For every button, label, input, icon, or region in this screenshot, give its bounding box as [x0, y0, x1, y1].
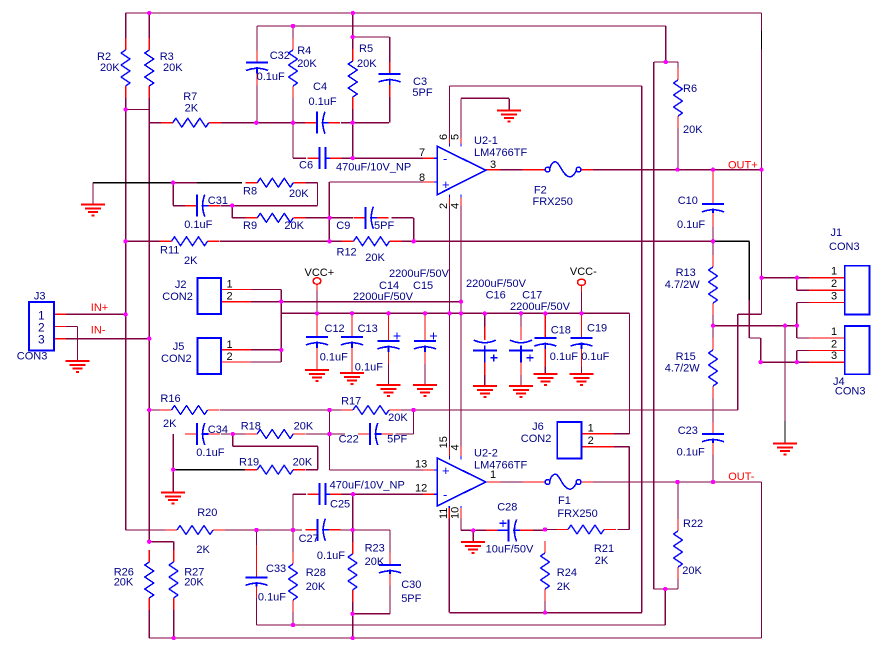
resistor R18	[241, 421, 314, 439]
wire C32 column stubs	[256, 26, 258, 123]
pin 7 label U2-1	[419, 147, 425, 159]
ground below C18	[533, 374, 557, 385]
svg-text:C17: C17	[522, 289, 542, 301]
connector J6 CON2	[521, 421, 594, 459]
capacitor C33	[246, 545, 287, 604]
wire U2-1 pin8 row and column	[329, 182, 437, 241]
svg-text:C32: C32	[270, 50, 290, 62]
capacitor C18	[534, 325, 578, 364]
wire OUT+ feedback top row	[126, 12, 762, 14]
svg-text:20K: 20K	[365, 556, 385, 568]
wire U2-2 pin11 to bottom rail	[449, 506, 641, 613]
connector J5 CON2	[161, 338, 233, 374]
wire C10 column	[712, 170, 714, 242]
resistor R12	[337, 237, 402, 264]
svg-text:2: 2	[438, 203, 450, 209]
resistor R5	[348, 43, 377, 109]
svg-text:20K: 20K	[293, 457, 313, 469]
svg-text:C31: C31	[208, 195, 228, 207]
svg-text:C18: C18	[551, 325, 571, 337]
wire black segment C10 to J4 pin3	[713, 241, 761, 362]
svg-text:LM4766TF: LM4766TF	[474, 147, 527, 159]
wire C14/C15 lead maroon part	[389, 364, 426, 385]
wire U2-2 output to F1 and OUT- row	[486, 482, 762, 638]
svg-text:C28: C28	[497, 502, 517, 514]
resistor R3	[145, 38, 184, 98]
svg-text:CON3: CON3	[17, 350, 48, 362]
capacitor C31	[184, 195, 228, 231]
svg-text:2K: 2K	[196, 544, 210, 556]
svg-text:R6: R6	[683, 83, 697, 95]
pin 12 label U2-2	[415, 483, 427, 495]
wire IN+ column R2 bottom to R20	[125, 98, 127, 530]
svg-text:5PF: 5PF	[412, 87, 432, 99]
wire R8 right jog down	[232, 183, 317, 206]
capacitor C6 470uF/10V_NP	[299, 147, 411, 173]
svg-text:0.1uF: 0.1uF	[258, 592, 286, 604]
wire C9 right jog	[391, 218, 413, 242]
wire R19 loop	[233, 434, 318, 470]
svg-text:R9: R9	[243, 220, 257, 232]
svg-text:10: 10	[450, 507, 462, 519]
svg-text:VCC+: VCC+	[305, 267, 335, 279]
ground symbol U2-1 pin5	[497, 110, 521, 121]
resistor R16	[160, 393, 220, 430]
net label OUT+	[728, 160, 758, 172]
wire R22 column and jog	[654, 482, 678, 625]
svg-text:2: 2	[588, 435, 594, 447]
svg-text:20K: 20K	[388, 412, 408, 424]
wire R7 row	[149, 122, 389, 124]
svg-text:-: -	[443, 487, 447, 502]
svg-text:J1: J1	[831, 227, 843, 239]
op-amp U2-2 LM4766TF	[437, 448, 527, 507]
wire J1 pin3 to mid rail	[797, 303, 845, 326]
pin 1 label U2-2	[490, 469, 496, 481]
ground symbol below J3	[66, 361, 90, 372]
svg-text:C30: C30	[401, 579, 421, 591]
wire bottom rail 625	[257, 624, 666, 626]
svg-text:LM4766TF: LM4766TF	[474, 460, 527, 472]
svg-text:2K: 2K	[185, 103, 199, 115]
svg-text:CON2: CON2	[161, 353, 192, 365]
svg-text:2K: 2K	[184, 255, 198, 267]
svg-text:1: 1	[227, 279, 233, 291]
resistor R27	[169, 550, 204, 610]
capacitor C14 2200uF/50V	[353, 280, 414, 364]
svg-text:20K: 20K	[357, 58, 377, 70]
wire C3 top jog	[353, 37, 390, 123]
wire J3 pin1 IN+ row	[54, 313, 126, 315]
resistor R4	[289, 38, 318, 98]
capacitor C4	[305, 81, 340, 134]
svg-text:C9: C9	[336, 220, 350, 232]
svg-text:5: 5	[450, 134, 462, 140]
resistor R8	[243, 178, 309, 200]
wire U2-2 pin10 to C28	[461, 506, 497, 531]
resistor R21	[556, 525, 616, 567]
wire J4 pin2	[797, 351, 845, 363]
svg-text:20K: 20K	[114, 577, 134, 589]
svg-text:0.1uF: 0.1uF	[257, 71, 285, 83]
svg-text:0.1uF: 0.1uF	[550, 351, 578, 363]
capacitor C25 470uF/10V_NP	[307, 480, 404, 511]
capacitor C15 2200uF/50V	[389, 268, 450, 364]
capacitor C34	[185, 423, 228, 459]
connector J3 CON3	[17, 291, 54, 363]
resistor R13 4.7/2W	[665, 255, 718, 315]
wire J1 pin2	[797, 278, 845, 291]
svg-text:20K: 20K	[184, 577, 204, 589]
connector J2 CON2	[162, 278, 232, 314]
svg-text:IN+: IN+	[91, 302, 108, 314]
svg-text:R4: R4	[297, 45, 311, 57]
resistor R26	[114, 550, 154, 610]
wire C25/pin12 row	[293, 494, 423, 530]
svg-text:1: 1	[831, 266, 837, 278]
svg-text:0.1uF: 0.1uF	[581, 351, 609, 363]
svg-text:R8: R8	[243, 186, 257, 198]
svg-text:20K: 20K	[289, 188, 309, 200]
op-amp U2-1 LM4766TF	[437, 135, 527, 195]
svg-text:5PF: 5PF	[374, 220, 394, 232]
svg-text:2K: 2K	[557, 581, 571, 593]
svg-text:20K: 20K	[100, 62, 120, 74]
pin 3 label U2-1	[490, 159, 496, 171]
wire ground drop right of J4	[784, 326, 786, 444]
svg-text:F1: F1	[558, 495, 571, 507]
wire R27 jog	[149, 542, 173, 638]
svg-text:3: 3	[831, 350, 837, 362]
capacitor C32	[246, 50, 290, 86]
wire R13 column stubs	[712, 241, 714, 325]
capacitor C28 10uF/50V	[486, 502, 534, 556]
svg-text:4: 4	[450, 444, 462, 450]
wire U2-1 pin7 red stub	[423, 157, 437, 159]
svg-text:C15: C15	[413, 280, 433, 292]
svg-text:20K: 20K	[297, 58, 317, 70]
wire input network row 410	[149, 409, 738, 411]
fuse F2 FRX250	[533, 162, 581, 208]
wire J3 pin3 IN- row	[54, 338, 149, 340]
wire C30 column	[353, 530, 390, 614]
resistor R23	[348, 542, 385, 602]
wire R19 black segment	[173, 469, 245, 471]
svg-text:1: 1	[490, 469, 496, 481]
ground below C19	[570, 374, 594, 385]
svg-text:3: 3	[38, 333, 45, 347]
pin 6 label U2-1	[438, 134, 450, 140]
wire second top row (C32/R4 to R6)	[257, 25, 666, 27]
svg-text:+: +	[442, 177, 450, 192]
wire R11/R12 long row	[126, 240, 713, 242]
wire U2-1 pin3 output stub	[486, 169, 593, 171]
wire pin5 to ground	[461, 98, 509, 138]
svg-text:R15: R15	[676, 351, 696, 363]
svg-text:J3: J3	[34, 291, 46, 303]
wire U2-1 output to F2 and OUT+ row	[500, 169, 762, 171]
wire J4 pin1	[797, 326, 845, 338]
svg-text:C25: C25	[330, 499, 350, 511]
wire R20 row to C27	[126, 529, 390, 531]
wire pin6 loop row86 and column to U2-2 pin11 row	[450, 86, 642, 613]
wire J5 pin2	[221, 361, 281, 363]
resistor R22	[674, 518, 704, 579]
svg-text:R23: R23	[365, 543, 385, 555]
pin 4 label U2-2	[450, 444, 462, 450]
svg-text:4.7/2W: 4.7/2W	[665, 363, 700, 375]
svg-text:J2: J2	[175, 279, 187, 291]
wire C12/C13/C18/C19 leads to grounds	[317, 360, 582, 374]
resistor R15 4.7/2W	[665, 338, 718, 398]
svg-text:OUT-: OUT-	[728, 471, 755, 483]
svg-text:20K: 20K	[284, 220, 304, 232]
svg-text:11: 11	[438, 508, 450, 519]
wire U2 pin2/pin15 column	[449, 143, 451, 459]
resistor R2	[97, 38, 130, 98]
svg-text:4: 4	[450, 203, 462, 209]
resistor R9	[243, 213, 305, 232]
svg-text:2200uF/50V: 2200uF/50V	[510, 301, 571, 313]
svg-text:C12: C12	[325, 323, 345, 335]
svg-text:R22: R22	[683, 518, 703, 530]
wire J2 pin1	[221, 290, 281, 363]
svg-text:R17: R17	[341, 396, 361, 408]
svg-text:R5: R5	[359, 43, 373, 55]
ground symbol right of J4	[773, 444, 797, 455]
wire mid rail R13/R15 junction to J1 pin3	[713, 325, 797, 327]
wire IN- column R3 bottom down to R26 node	[148, 98, 150, 542]
connector J1 CON3	[829, 227, 870, 315]
svg-text:2200uF/50V: 2200uF/50V	[353, 291, 414, 303]
svg-text:C10: C10	[678, 195, 698, 207]
pin 8 label U2-1	[419, 172, 425, 184]
svg-text:IN-: IN-	[91, 325, 106, 337]
wire J2 pin2 / VCC link row	[221, 301, 461, 303]
resistor R20	[165, 507, 225, 556]
net label IN+	[91, 302, 108, 314]
svg-text:0.1uF: 0.1uF	[677, 219, 705, 231]
wire R24 column stubs	[544, 530, 546, 613]
svg-text:0.1uF: 0.1uF	[677, 447, 705, 459]
resistor R6	[674, 68, 704, 136]
svg-text:U2-1: U2-1	[474, 135, 498, 147]
capacitor C23	[677, 422, 724, 459]
svg-text:20K: 20K	[163, 62, 183, 74]
svg-text:2: 2	[831, 338, 837, 350]
wire R9 row	[232, 206, 353, 218]
wire C33 column	[256, 530, 258, 625]
wire U2-1 pin6/pin5 red stubs	[450, 138, 462, 143]
wire C31 row	[173, 183, 232, 206]
wire C16/C17 leads to grounds	[485, 375, 521, 386]
wire long feedback column to R22	[653, 62, 655, 589]
capacitor C27	[299, 519, 346, 562]
svg-text:1: 1	[227, 339, 233, 351]
svg-text:3: 3	[490, 159, 496, 171]
capacitor C12	[306, 323, 348, 364]
svg-text:U2-2: U2-2	[474, 448, 498, 460]
svg-text:-: -	[443, 151, 447, 166]
wire C34/R18/C22 row	[221, 410, 414, 434]
svg-text:J6: J6	[532, 421, 544, 433]
svg-text:J5: J5	[173, 341, 185, 353]
wire J6 pin2 to R21	[582, 447, 630, 530]
svg-text:20K: 20K	[306, 581, 326, 593]
svg-text:+: +	[442, 463, 450, 478]
wire R15/C23 column stubs	[712, 326, 714, 482]
wire C28 right to R24/R21 node	[518, 529, 545, 531]
capacitor C19	[571, 323, 610, 364]
svg-text:2: 2	[831, 278, 837, 290]
svg-text:CON2: CON2	[521, 433, 552, 445]
resistor R17	[341, 396, 408, 425]
svg-text:20K: 20K	[294, 421, 314, 433]
svg-text:2K: 2K	[163, 418, 177, 430]
wire C28 ground drop	[472, 530, 474, 541]
wire U2-2 pin12 red stub	[423, 493, 437, 495]
capacitor C10	[677, 172, 724, 231]
svg-text:C23: C23	[678, 425, 698, 437]
svg-text:C6: C6	[299, 160, 313, 172]
svg-text:20K: 20K	[365, 252, 385, 264]
svg-text:3: 3	[831, 291, 837, 303]
svg-text:R16: R16	[160, 393, 180, 405]
wire J6 pin1 from bus	[582, 313, 630, 434]
ground below C34/R19	[161, 493, 185, 504]
svg-text:2: 2	[227, 291, 233, 303]
wire R5/C3 node column	[352, 13, 354, 158]
svg-text:5PF: 5PF	[387, 434, 407, 446]
wire R23 column stubs	[352, 530, 354, 638]
ground below C15	[413, 385, 437, 396]
svg-text:C19: C19	[587, 323, 607, 335]
pin 10 label U2-2	[450, 507, 462, 519]
capacitor C30	[379, 553, 422, 605]
svg-text:470uF/10V_NP: 470uF/10V_NP	[336, 162, 411, 174]
svg-text:2K: 2K	[595, 555, 609, 567]
wire R6 top jog	[654, 26, 678, 170]
svg-text:CON3: CON3	[829, 241, 860, 253]
wire VCC bus rail	[281, 312, 629, 314]
svg-text:C16: C16	[486, 289, 506, 301]
svg-text:C27: C27	[299, 533, 319, 545]
wire R26 column	[148, 610, 150, 638]
svg-text:12: 12	[415, 483, 427, 495]
capacitor C16 2200uF/50V	[466, 278, 527, 375]
wire U2-2 pin13 red stub	[423, 469, 437, 471]
svg-text:2200uF/50V: 2200uF/50V	[466, 278, 527, 290]
net label IN-	[91, 325, 106, 337]
svg-text:CON2: CON2	[162, 291, 193, 303]
ground below C17	[509, 386, 533, 397]
svg-text:0.1uF: 0.1uF	[196, 447, 224, 459]
svg-text:4.7/2W: 4.7/2W	[665, 279, 700, 291]
svg-text:8: 8	[419, 172, 425, 184]
wire J5 pin1	[221, 349, 281, 351]
wire C34 left column to ground	[172, 434, 174, 493]
wire R2/R3 bottom jog	[126, 109, 150, 111]
net label OUT-	[728, 471, 755, 483]
wire VCC+ drop	[316, 285, 318, 314]
capacitor C3	[379, 62, 433, 99]
svg-text:C34: C34	[208, 424, 228, 436]
connector J4 CON3	[831, 326, 870, 398]
svg-text:5PF: 5PF	[401, 593, 421, 605]
svg-text:6: 6	[438, 134, 450, 140]
svg-text:C22: C22	[339, 434, 359, 446]
wire C6 / pin7 row	[293, 123, 423, 158]
resistor R19	[239, 457, 313, 475]
svg-text:20K: 20K	[682, 565, 702, 577]
svg-text:R12: R12	[337, 247, 357, 259]
svg-text:R11: R11	[160, 245, 179, 257]
svg-text:R28: R28	[306, 567, 326, 579]
svg-text:15: 15	[438, 436, 450, 448]
capacitor C13	[341, 323, 383, 374]
resistor R7	[161, 91, 221, 127]
svg-text:2: 2	[227, 351, 233, 363]
svg-text:7: 7	[419, 147, 425, 159]
wire J4 pin3 row	[761, 361, 845, 363]
wire black ground wire to R8	[93, 183, 242, 205]
pin 13 label U2-2	[415, 459, 427, 471]
wire U2-2 pin13 row	[330, 434, 424, 470]
resistor R28	[289, 552, 326, 612]
svg-text:0.1uF: 0.1uF	[184, 219, 212, 231]
svg-text:R18: R18	[241, 421, 261, 433]
ground below C13	[340, 373, 364, 384]
svg-text:13: 13	[415, 459, 427, 471]
svg-text:0.1uF: 0.1uF	[355, 362, 383, 374]
svg-text:R20: R20	[197, 507, 217, 519]
svg-text:10uF/50V: 10uF/50V	[486, 544, 534, 556]
wire VCC- drop	[581, 286, 583, 314]
svg-text:1: 1	[588, 422, 594, 434]
svg-text:R7: R7	[183, 91, 197, 103]
svg-text:20K: 20K	[683, 124, 703, 136]
wire cap bank leads from bus	[317, 313, 582, 329]
svg-text:VCC-: VCC-	[570, 266, 597, 278]
capacitor C17 2200uF/50V	[509, 289, 571, 375]
wire OUT+ right vertical (row13 to J1/row410 link)	[738, 13, 762, 410]
wire U2 pin4 column	[460, 143, 462, 459]
pin 15 label U2-2	[438, 436, 450, 448]
wire pin13 column upper	[329, 410, 331, 434]
power port VCC-	[570, 266, 597, 291]
ground below C28	[461, 542, 485, 553]
wire R28 column stubs	[292, 530, 294, 625]
pin 11 label U2-2	[438, 508, 450, 519]
svg-text:R24: R24	[557, 567, 577, 579]
svg-text:R19: R19	[239, 457, 259, 469]
resistor R11	[160, 237, 220, 267]
svg-text:F2: F2	[534, 185, 547, 197]
svg-text:FRX250: FRX250	[557, 508, 597, 520]
svg-text:2200uF/50V: 2200uF/50V	[389, 268, 450, 280]
svg-text:C4: C4	[313, 81, 327, 93]
wire bottom rail 638	[149, 637, 761, 639]
svg-text:0.1uF: 0.1uF	[320, 352, 348, 364]
svg-text:0.1uF: 0.1uF	[309, 96, 337, 108]
svg-text:C33: C33	[266, 563, 286, 575]
capacitor C9	[336, 207, 394, 232]
wire J1 pin1 to OUT+	[762, 277, 846, 279]
ground below C16	[473, 386, 497, 397]
pin 5 label U2-1	[450, 134, 462, 140]
wire R4 column stubs	[292, 26, 294, 123]
wire R2/R3 top leads from row13	[126, 13, 150, 38]
